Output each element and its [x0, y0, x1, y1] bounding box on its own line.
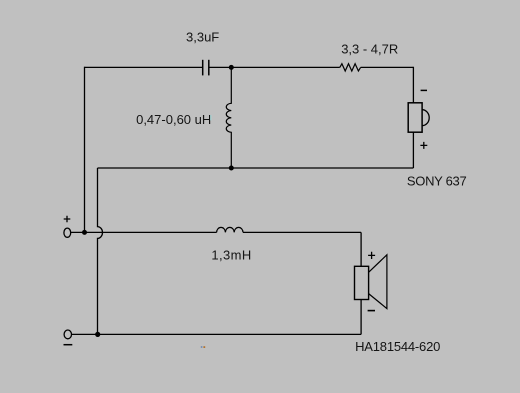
node D junction dot minus rail	[95, 332, 100, 337]
inductor L1 vertical (0,47-0,60 uH)	[226, 67, 231, 168]
wire top rail right segment	[361, 66, 414, 68]
tweeter dome	[422, 110, 429, 126]
svg-text:HA181544-620: HA181544-620	[355, 339, 440, 354]
wire woofer top feed	[360, 232, 362, 266]
svg-text:3,3 - 4,7R: 3,3 - 4,7R	[341, 42, 398, 57]
wire top rail middle segment	[209, 66, 340, 68]
wire tweeter bottom rail	[98, 167, 414, 169]
stray blue pixel artifact	[201, 346, 203, 348]
node B junction dot on tweeter bottom rail	[229, 166, 234, 171]
node C junction dot plus feed	[82, 230, 87, 235]
input terminal plus circle	[64, 228, 71, 237]
input terminal minus circle	[64, 330, 71, 339]
tweeter plus polarity mark	[420, 142, 427, 149]
wire vertical with hop from tweeter rail to minus rail	[98, 168, 103, 334]
inductor L2 series (1,3mH)	[217, 227, 243, 232]
woofer plus polarity mark	[368, 252, 375, 259]
woofer cone	[369, 255, 387, 309]
tweeter speaker SONY 637 body	[408, 103, 422, 132]
resistor R1 zigzag (3,3 - 4,7R)	[340, 64, 361, 71]
svg-text:SONY 637: SONY 637	[407, 173, 467, 188]
wire minus bottom rail	[72, 333, 361, 335]
wire from L2 to woofer	[243, 231, 361, 233]
input plus mark	[64, 216, 71, 223]
stray orange pixel artifact	[203, 346, 205, 348]
woofer minus polarity mark	[368, 310, 375, 312]
woofer speaker HA181544-620 body	[355, 266, 369, 299]
svg-text:0,47-0,60 uH: 0,47-0,60 uH	[136, 112, 211, 127]
wire tweeter top feed	[412, 67, 414, 103]
wire left vertical from top rail to plus junction	[84, 67, 86, 233]
wire from plus terminal to L2	[71, 231, 217, 233]
wire woofer bottom feed	[360, 300, 362, 335]
node A junction dot at capacitor output	[229, 65, 234, 70]
tweeter minus polarity mark	[421, 89, 427, 91]
capacitor C1 plates (3,3uF)	[203, 60, 209, 76]
wire tweeter bottom feed	[412, 132, 414, 168]
input minus mark	[64, 344, 73, 346]
svg-text:3,3uF: 3,3uF	[186, 30, 219, 45]
wire top rail left segment	[84, 66, 202, 68]
svg-text:1,3mH: 1,3mH	[211, 247, 251, 262]
faint cyan smudge artifact	[210, 115, 212, 121]
